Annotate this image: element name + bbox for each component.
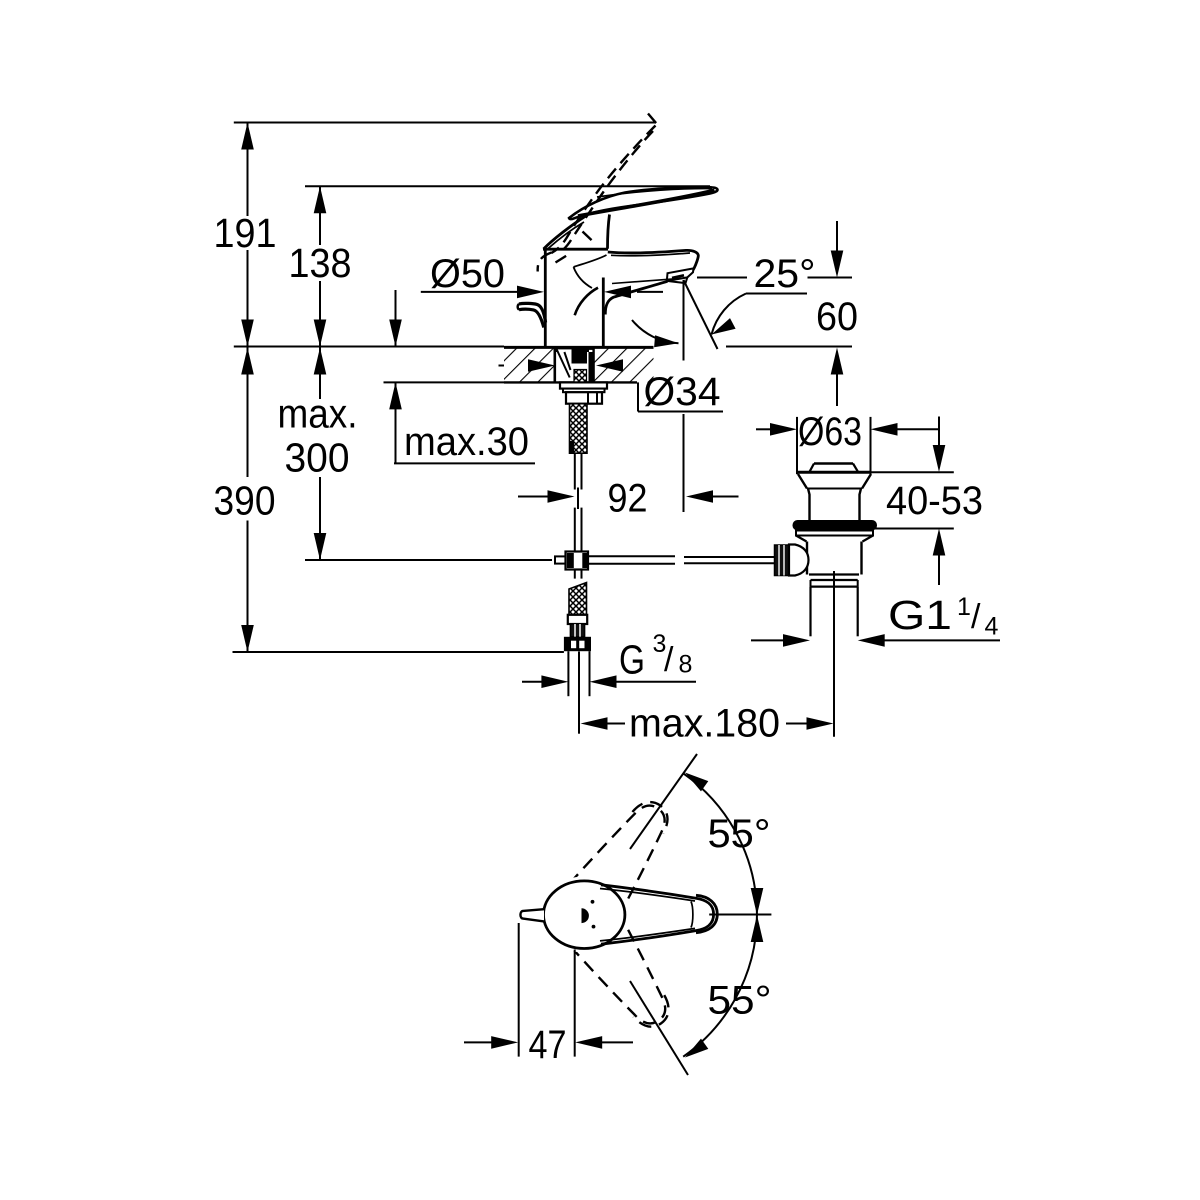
svg-text:Ø50: Ø50 (430, 252, 505, 296)
svg-text:55°: 55° (708, 979, 772, 1023)
svg-text:40-53: 40-53 (886, 479, 983, 523)
svg-text:/: / (971, 598, 981, 636)
svg-text:max.180: max.180 (629, 702, 780, 746)
svg-text:G: G (619, 637, 645, 683)
svg-text:Ø34: Ø34 (644, 370, 721, 414)
svg-text:8: 8 (679, 651, 693, 679)
svg-text:max.: max. (278, 391, 358, 437)
svg-text:Ø63: Ø63 (798, 410, 862, 454)
svg-text:47: 47 (529, 1023, 567, 1067)
svg-text:390: 390 (214, 478, 276, 524)
svg-text:92: 92 (608, 477, 648, 521)
svg-text:191: 191 (214, 210, 277, 256)
svg-text:1: 1 (957, 593, 971, 621)
svg-text:G1: G1 (888, 592, 952, 638)
svg-text:4: 4 (985, 613, 999, 641)
svg-text:25°: 25° (754, 252, 816, 296)
svg-text:/: / (664, 641, 674, 679)
svg-text:60: 60 (816, 295, 858, 339)
svg-text:55°: 55° (708, 812, 771, 856)
svg-text:300: 300 (285, 435, 350, 481)
svg-text:max.30: max.30 (404, 420, 529, 464)
svg-text:138: 138 (289, 240, 352, 286)
